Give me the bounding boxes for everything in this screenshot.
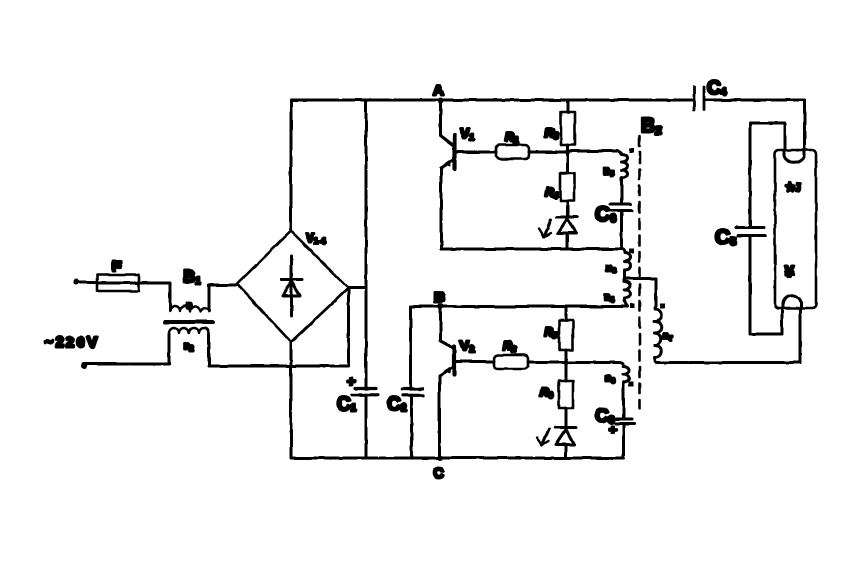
svg-text:C6: C6 xyxy=(595,203,616,226)
svg-text:B: B xyxy=(434,289,445,306)
svg-text:~220V: ~220V xyxy=(44,334,100,351)
svg-text:A: A xyxy=(433,82,444,99)
svg-text:¥: ¥ xyxy=(785,264,794,281)
top rail xyxy=(291,99,694,102)
bottom rail xyxy=(291,457,623,460)
svg-text:C1: C1 xyxy=(337,394,357,415)
capacitor C5 xyxy=(736,226,764,229)
resistor R3 xyxy=(566,100,569,112)
node B xyxy=(438,304,444,310)
capacitor C3 xyxy=(622,385,625,420)
svg-text:n: n xyxy=(186,300,192,310)
diode VD1 xyxy=(557,216,577,219)
arrow mark VD1 xyxy=(544,220,551,237)
capacitor C2 xyxy=(409,307,412,390)
choke B1 winding n1 xyxy=(170,306,209,311)
svg-text:n7: n7 xyxy=(663,331,673,343)
resistor R1 xyxy=(496,145,529,159)
wire C5 to lamp bottom-left pin xyxy=(750,236,782,335)
resistor R5 xyxy=(565,307,568,321)
transformer B2 core dashed xyxy=(638,136,641,408)
wire xyxy=(78,281,97,284)
diode VD2 xyxy=(555,426,576,429)
wire rail to lamp xyxy=(704,100,805,150)
wire bridge bottom to rail xyxy=(290,342,293,458)
svg-text:R1: R1 xyxy=(505,130,519,145)
capacitor C4 xyxy=(693,87,696,110)
wire lamp bottom-right pin xyxy=(799,308,802,363)
svg-text:n3: n3 xyxy=(606,263,616,275)
resistor R6 xyxy=(565,363,568,382)
svg-text:+: + xyxy=(347,373,355,389)
wire xyxy=(528,361,566,364)
wire bridge + stub xyxy=(349,287,367,290)
svg-text:n4: n4 xyxy=(604,292,614,304)
wire node B rail xyxy=(411,305,628,308)
wire xyxy=(139,283,170,310)
winding n6 xyxy=(620,363,630,385)
winding n4 xyxy=(624,279,631,307)
svg-text:F: F xyxy=(112,258,121,275)
choke B1 winding n2 xyxy=(169,328,209,333)
svg-text:n2: n2 xyxy=(184,341,194,353)
dot n5 xyxy=(629,148,634,153)
wire xyxy=(209,285,237,311)
DC bus wire xyxy=(365,100,368,388)
wire emitter V2 down xyxy=(438,376,441,458)
svg-text:V2: V2 xyxy=(460,337,474,354)
svg-text:R4: R4 xyxy=(545,185,559,200)
wire n7 to lamp xyxy=(655,360,800,363)
terminal top-left xyxy=(73,279,79,285)
emitter return line xyxy=(441,248,622,251)
node junction R1R3R4 xyxy=(565,149,570,154)
node C xyxy=(437,455,443,461)
capacitor C6 xyxy=(620,178,623,205)
dot n3 xyxy=(629,249,634,254)
winding n7 xyxy=(655,306,662,359)
svg-text:+: + xyxy=(609,422,617,437)
lamp bottom filament xyxy=(783,295,801,307)
winding n3 xyxy=(622,249,631,279)
fuse F xyxy=(97,275,139,291)
bridge rectifier V1-4 xyxy=(237,231,349,342)
svg-text:★J: ★J xyxy=(785,182,801,194)
node A xyxy=(438,98,444,104)
svg-text:B2: B2 xyxy=(641,115,662,137)
wire xyxy=(84,334,169,364)
svg-text:n5: n5 xyxy=(604,166,614,178)
wire xyxy=(529,151,568,154)
capacitor C1 xyxy=(355,387,376,390)
svg-text:C4: C4 xyxy=(707,78,727,99)
wire xyxy=(209,334,348,366)
svg-text:R5: R5 xyxy=(544,325,558,340)
arrow mark VD2 xyxy=(542,429,549,445)
svg-text:V1: V1 xyxy=(460,125,474,142)
wire bridge top to rail xyxy=(290,100,293,231)
svg-text:R2: R2 xyxy=(503,339,517,354)
svg-text:R3: R3 xyxy=(545,126,559,141)
resistor R4 xyxy=(566,152,569,173)
svg-text:C5: C5 xyxy=(715,226,736,249)
resistor R2 xyxy=(494,355,528,369)
dot n7 xyxy=(660,304,665,309)
winding n5 xyxy=(617,151,628,179)
svg-text:V1-4: V1-4 xyxy=(306,231,326,246)
wire emitter V1 down xyxy=(440,168,443,250)
svg-text:B1: B1 xyxy=(183,267,201,287)
transistor V1 xyxy=(441,100,454,146)
dot n4 xyxy=(630,304,635,309)
svg-text:C: C xyxy=(433,465,444,482)
wire lamp top-left pin to C5 xyxy=(750,123,785,227)
choke B1 core xyxy=(165,320,213,324)
svg-text:n6: n6 xyxy=(605,373,615,385)
node junction R2R5R6 xyxy=(563,360,568,365)
svg-text:C2: C2 xyxy=(387,394,407,415)
dot n6 xyxy=(629,382,634,387)
wire junction n3-n4 to n7 xyxy=(625,277,657,280)
lamp top filament xyxy=(784,151,804,163)
transistor V2 xyxy=(441,307,454,349)
wire AC return riser xyxy=(347,288,350,366)
svg-text:R6: R6 xyxy=(540,385,554,400)
terminal bottom-left xyxy=(81,363,87,369)
lamp tube xyxy=(775,150,816,308)
